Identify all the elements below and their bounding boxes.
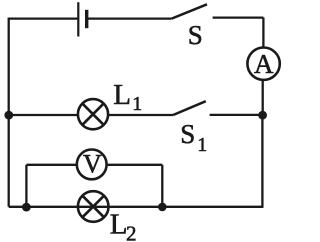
node: left middle junction dot bbox=[4, 111, 13, 120]
wire: middle row from left dot to lamp L1 bbox=[9, 114, 78, 116]
lamp L2: cross stroke 1 bbox=[83, 196, 104, 217]
lamp L1: circle bbox=[78, 99, 108, 129]
svg-text:A: A bbox=[254, 49, 274, 79]
switch S right contact wire bbox=[213, 16, 264, 18]
wire: voltmeter branch top-right horizontal bbox=[107, 164, 163, 166]
svg-text:S: S bbox=[188, 20, 203, 50]
switch S1 right contact wire bbox=[210, 114, 259, 116]
ammeter: circle bbox=[247, 48, 279, 80]
wire: ammeter bottom to junction dot bbox=[262, 80, 264, 116]
svg-text:L: L bbox=[110, 208, 128, 240]
wire: voltmeter branch top-left horizontal bbox=[26, 164, 77, 166]
node: voltmeter branch right junction dot bbox=[158, 203, 167, 212]
switch S1 open blade bbox=[173, 101, 206, 115]
svg-text:L: L bbox=[113, 79, 131, 111]
battery cell (short thick negative plate) bbox=[85, 10, 88, 28]
node: voltmeter branch left junction dot bbox=[22, 203, 31, 212]
svg-text:1: 1 bbox=[132, 93, 142, 115]
lamp L2: circle bbox=[78, 191, 109, 222]
wire: voltmeter branch left vertical riser bbox=[25, 165, 27, 207]
wire: top middle from battery to switch S pivot bbox=[87, 17, 172, 19]
svg-text:S: S bbox=[180, 119, 195, 149]
wire: top-right corner down to ammeter bbox=[262, 18, 264, 49]
svg-text:1: 1 bbox=[197, 134, 207, 156]
node: right middle junction dot bbox=[258, 111, 267, 120]
switch S open blade bbox=[172, 4, 207, 18]
lamp L1: cross stroke 2 bbox=[82, 104, 103, 125]
wire: bottom horizontal bbox=[9, 206, 263, 208]
lamp L2: cross stroke 2 bbox=[83, 196, 104, 217]
svg-text:2: 2 bbox=[126, 221, 137, 242]
wire: top-left horizontal from corner to battery bbox=[9, 17, 78, 19]
voltmeter: circle bbox=[77, 150, 107, 180]
lamp L1: cross stroke 1 bbox=[82, 104, 103, 125]
wire: right vertical lower segment bbox=[261, 115, 263, 208]
wire: middle row from lamp L1 to switch S1 pivot bbox=[108, 114, 173, 116]
wire: voltmeter branch right vertical drop bbox=[161, 165, 163, 207]
battery cell (long positive plate) bbox=[77, 2, 79, 36]
wire: left vertical side bbox=[8, 18, 10, 207]
svg-text:V: V bbox=[83, 149, 102, 178]
